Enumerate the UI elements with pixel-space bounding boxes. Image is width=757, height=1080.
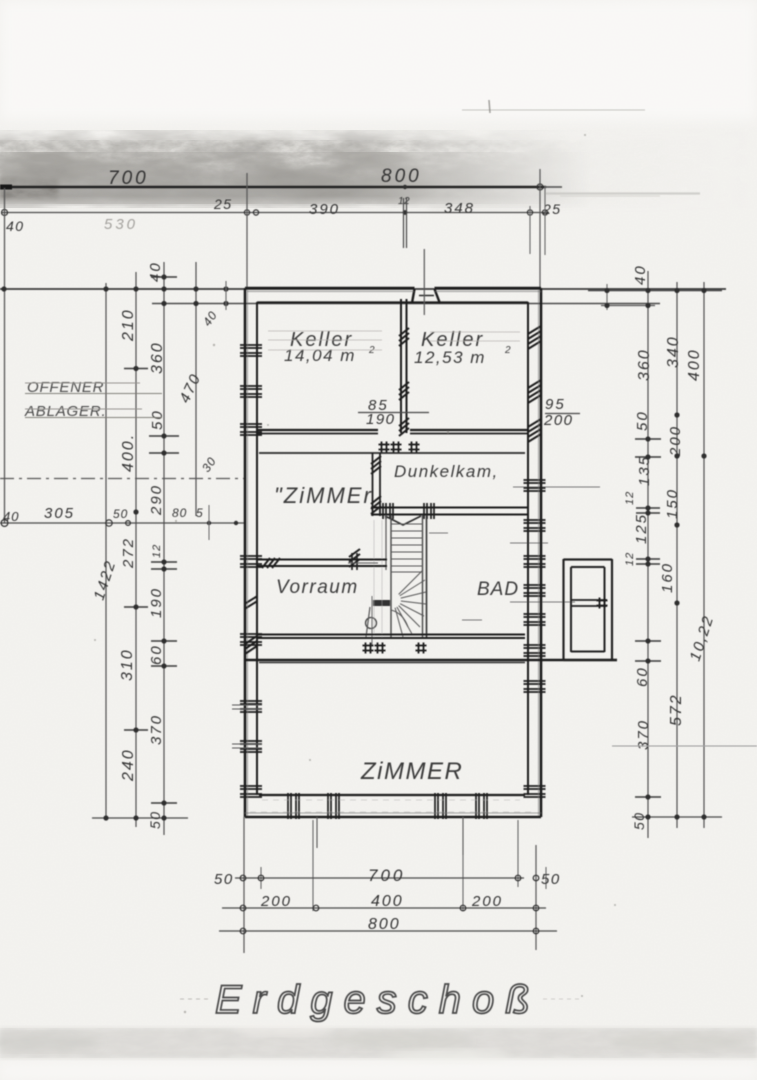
- svg-text:370: 370: [635, 719, 652, 750]
- svg-text:210: 210: [120, 308, 137, 342]
- svg-text:95: 95: [545, 396, 566, 413]
- svg-text:125: 125: [633, 513, 650, 544]
- svg-text:50: 50: [634, 410, 651, 431]
- svg-text:572: 572: [668, 693, 685, 726]
- svg-text:50: 50: [631, 811, 647, 830]
- svg-text:200: 200: [471, 893, 503, 910]
- svg-text:50: 50: [147, 810, 163, 829]
- svg-text:240: 240: [120, 748, 137, 782]
- svg-text:800: 800: [368, 916, 401, 933]
- svg-text:Dunkelkam,: Dunkelkam,: [394, 462, 499, 481]
- svg-text:2: 2: [504, 345, 512, 356]
- svg-text:60: 60: [634, 666, 651, 687]
- svg-text:360: 360: [149, 341, 166, 374]
- svg-text:530: 530: [104, 216, 138, 233]
- svg-text:800: 800: [381, 166, 422, 187]
- svg-text:190: 190: [148, 587, 165, 618]
- svg-text:50: 50: [113, 507, 128, 521]
- svg-text:700: 700: [108, 168, 149, 189]
- svg-text:50: 50: [149, 409, 166, 430]
- svg-text:348: 348: [444, 200, 475, 217]
- svg-text:80: 80: [172, 506, 187, 520]
- svg-text:5: 5: [196, 506, 204, 520]
- svg-text:160: 160: [659, 562, 676, 593]
- svg-text:400: 400: [686, 348, 703, 381]
- svg-text:310: 310: [119, 648, 136, 681]
- svg-text:60: 60: [148, 644, 165, 665]
- svg-text:305: 305: [44, 505, 75, 522]
- svg-text:340: 340: [665, 335, 682, 368]
- svg-text:50: 50: [214, 871, 234, 888]
- svg-text:700: 700: [368, 866, 405, 885]
- svg-text:12: 12: [624, 491, 636, 505]
- svg-text:272: 272: [120, 537, 137, 569]
- svg-text:400.: 400.: [120, 433, 137, 472]
- svg-text:40: 40: [6, 218, 25, 234]
- svg-text:360: 360: [636, 348, 653, 381]
- svg-text:25: 25: [213, 196, 233, 212]
- svg-text:12: 12: [151, 544, 163, 558]
- svg-text:ZiMMER: ZiMMER: [360, 758, 463, 785]
- svg-text:200: 200: [543, 412, 574, 429]
- svg-text:190: 190: [366, 411, 396, 428]
- svg-text:Vorraum: Vorraum: [276, 577, 359, 598]
- svg-text:390: 390: [309, 201, 340, 218]
- svg-text:40: 40: [3, 509, 19, 524]
- svg-text:40: 40: [147, 261, 164, 282]
- svg-text:14,04 m: 14,04 m: [284, 346, 356, 365]
- svg-text:290: 290: [148, 484, 165, 516]
- svg-text:135: 135: [636, 455, 653, 486]
- svg-text:150: 150: [664, 488, 681, 519]
- svg-text:12: 12: [624, 552, 636, 566]
- svg-text:370: 370: [148, 714, 165, 745]
- svg-text:40: 40: [632, 264, 649, 285]
- svg-text:Erdgeschoß: Erdgeschoß: [215, 978, 541, 1022]
- svg-text:400: 400: [371, 893, 404, 910]
- svg-text:12,53 m: 12,53 m: [414, 348, 486, 367]
- svg-text:50: 50: [541, 871, 561, 888]
- svg-text:200: 200: [260, 893, 292, 910]
- svg-text:"ZiMMEr: "ZiMMEr: [274, 483, 373, 508]
- svg-text:2: 2: [368, 345, 376, 356]
- svg-text:200: 200: [667, 425, 684, 457]
- svg-text:BAD: BAD: [477, 579, 519, 600]
